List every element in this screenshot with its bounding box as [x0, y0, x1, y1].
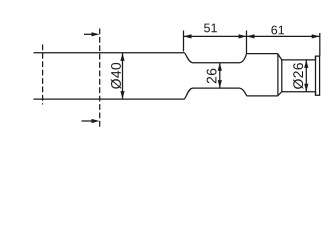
- dimension 61: [247, 26, 320, 56]
- collar right face edge line: [277, 54, 279, 96]
- part outline (chisel body profile): [34, 53, 320, 99]
- dimension 51: [184, 24, 247, 54]
- chamfer small-end edge line: [281, 60, 283, 92]
- dimension 26 (vertical, on neck): [207, 63, 222, 88]
- dimension D40 (vertical, on shank): [111, 53, 125, 99]
- dimension D26 (vertical, on shank end): [293, 60, 308, 92]
- leader arrow top-left: [84, 32, 100, 36]
- dashed line B (hidden datum right): [99, 29, 101, 128]
- leader arrow bottom-left: [82, 119, 100, 123]
- tip ring left face edge line: [315, 56, 317, 95]
- dashed line A (hidden datum left): [42, 45, 44, 105]
